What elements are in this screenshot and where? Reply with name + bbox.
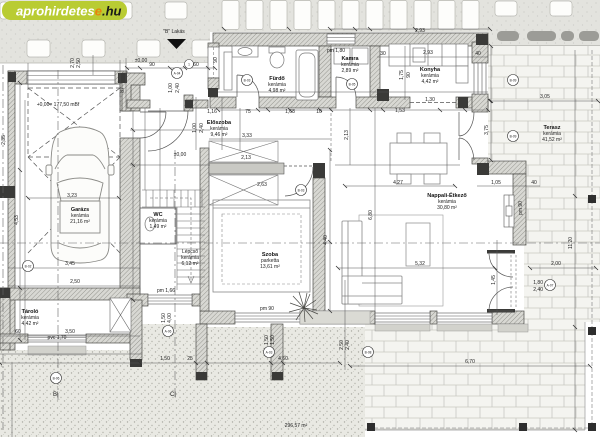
svg-text:1,00: 1,00 (192, 123, 198, 133)
svg-text:25: 25 (187, 356, 193, 362)
svg-text:1,68: 1,68 (285, 109, 295, 115)
svg-text:2,40: 2,40 (175, 83, 181, 93)
svg-text:2,40: 2,40 (533, 287, 543, 293)
hall bottom wall left stub (127, 100, 150, 108)
garage top wall (8, 71, 127, 84)
svg-text:90: 90 (213, 57, 219, 63)
svg-text:2,63: 2,63 (257, 182, 267, 188)
taroló shaft (110, 298, 131, 332)
svg-text:6,80: 6,80 (368, 210, 374, 220)
WC fixture (145, 217, 155, 231)
svg-text:B-03: B-03 (244, 79, 251, 83)
right terrace bricks (488, 46, 600, 164)
svg-text:A-03: A-03 (266, 351, 273, 355)
garage left wall (8, 71, 15, 350)
WC room (140, 208, 176, 244)
interior horizontal wall (210, 97, 236, 108)
bottom terrace bricks (365, 322, 585, 430)
svg-text:3,50: 3,50 (65, 329, 75, 335)
svg-text:4,00: 4,00 (167, 313, 173, 323)
stairs lower flight (150, 198, 205, 290)
sofa (359, 215, 443, 306)
svg-text:B-09: B-09 (510, 79, 517, 83)
svg-text:4,98 m²: 4,98 m² (269, 88, 286, 94)
room labels (21, 56, 562, 327)
svg-text:1,16: 1,16 (207, 109, 217, 115)
svg-text:2,40: 2,40 (345, 340, 351, 350)
svg-text:pm 90: pm 90 (260, 306, 274, 312)
svg-text:1,00: 1,00 (168, 83, 174, 93)
windows (28, 34, 514, 342)
vestibule wardrobe (224, 52, 232, 90)
svg-text:4,27: 4,27 (393, 180, 403, 186)
szoba left wall (200, 148, 209, 311)
car in garage (46, 127, 114, 263)
top wall (213, 33, 488, 46)
svg-text:40: 40 (531, 180, 537, 186)
svg-text:13,61 m²: 13,61 m² (260, 264, 280, 270)
garage right wall lower (120, 138, 140, 290)
ground stipple bottom-left (0, 306, 365, 437)
svg-text:1,50: 1,50 (160, 356, 170, 362)
svg-text:4,42 m²: 4,42 m² (422, 79, 439, 85)
joist/beam grid szoba top (209, 141, 284, 205)
svg-text:pm 1,66: pm 1,66 (157, 288, 175, 294)
left porch stub (130, 300, 142, 360)
svg-text:6,12 m²: 6,12 m² (182, 261, 199, 267)
svg-text:60: 60 (15, 329, 21, 335)
svg-text:2,93: 2,93 (415, 28, 425, 34)
svg-text:A-06: A-06 (165, 330, 172, 334)
circle markers (23, 60, 556, 384)
window sill slabs outside (375, 324, 430, 331)
svg-text:±0,00: ±0,00 (135, 58, 148, 64)
svg-text:3,33: 3,33 (242, 133, 252, 139)
svg-text:90: 90 (406, 72, 412, 78)
dining table (390, 133, 447, 184)
svg-text:1,30: 1,30 (425, 97, 435, 103)
garage door strip in top wall (27, 71, 115, 84)
svg-text:aprohirdetese.hu: aprohirdetese.hu (16, 4, 122, 19)
svg-text:1,75: 1,75 (399, 70, 405, 80)
svg-text:B-03: B-03 (298, 189, 305, 193)
bed in szoba (213, 200, 310, 292)
svg-text:B-06: B-06 (53, 377, 60, 381)
svg-text:30: 30 (380, 51, 386, 57)
svg-text:3,75: 3,75 (484, 125, 490, 135)
svg-text:90: 90 (149, 62, 155, 68)
svg-text:A-07: A-07 (547, 284, 554, 288)
svg-text:3,23: 3,23 (67, 193, 77, 199)
svg-text:2,35: 2,35 (1, 135, 7, 145)
svg-text:B-05: B-05 (349, 83, 356, 87)
svg-text:40: 40 (475, 51, 481, 57)
WALLS (0, 33, 526, 380)
svg-text:2,13: 2,13 (344, 130, 350, 140)
svg-text:60: 60 (193, 62, 199, 68)
kamra shelves (334, 48, 350, 64)
svg-text:2,50: 2,50 (70, 279, 80, 285)
szoba/living wall (313, 178, 325, 311)
svg-text:2,93: 2,93 (423, 50, 433, 56)
svg-text:±0,00: ±0,00 (174, 152, 187, 158)
svg-text:10: 10 (316, 109, 322, 115)
porch column stubs (196, 324, 207, 380)
svg-text:B-09: B-09 (510, 135, 517, 139)
hedge ovals top right (497, 31, 599, 41)
doors (arcs) (140, 75, 516, 311)
svg-text:2,50: 2,50 (76, 58, 82, 68)
svg-text:1,50: 1,50 (270, 335, 276, 345)
garage dashed rect + X (28, 88, 120, 253)
svg-text:1,49 m²: 1,49 m² (150, 224, 167, 230)
garage right wall upper (120, 83, 140, 111)
svg-text:1,05: 1,05 (491, 180, 501, 186)
svg-text:4,40: 4,40 (323, 235, 329, 245)
wall kamra/konyha (370, 46, 380, 97)
svg-text:pm 1,80: pm 1,80 (327, 48, 345, 54)
building white base (210, 32, 488, 324)
bottom wall main (200, 311, 235, 324)
svg-text:75: 75 (245, 109, 251, 115)
stairs upper flight (142, 190, 205, 207)
svg-text:B|: B| (53, 392, 59, 398)
small vertical dim labels (70, 58, 524, 350)
svg-text:4,60: 4,60 (278, 356, 288, 362)
taroló bottom wall (0, 334, 28, 343)
svg-text:1: 1 (188, 63, 190, 67)
svg-text:21,16 m²: 21,16 m² (70, 219, 90, 225)
svg-text:pm 90: pm 90 (518, 201, 524, 215)
bottom wall hall section (127, 294, 148, 306)
svg-text:B-08: B-08 (365, 351, 372, 355)
logo (2, 1, 127, 20)
svg-text:C|: C| (170, 392, 176, 398)
svg-text:11,20: 11,20 (568, 237, 574, 249)
svg-text:296,57 m²: 296,57 m² (285, 423, 308, 429)
svg-text:1,53: 1,53 (395, 108, 405, 114)
taroló left wall (0, 288, 10, 350)
vestibule wall + front door (208, 43, 219, 48)
porch right pillar (184, 95, 193, 111)
svg-text:1,80: 1,80 (533, 280, 543, 286)
plant (289, 292, 318, 322)
svg-text:6,70: 6,70 (465, 359, 475, 365)
top pavement strip (0, 0, 490, 63)
svg-text:41,52 m²: 41,52 m² (542, 137, 562, 143)
svg-text:1,45: 1,45 (491, 275, 497, 285)
bath fixtures (232, 46, 318, 100)
garage-taroló divider (0, 288, 140, 300)
svg-text:4,42 m²: 4,42 m² (22, 321, 39, 327)
terrace posts (367, 195, 596, 431)
svg-text:A-04: A-04 (174, 72, 181, 76)
svg-text:pvc 1,70: pvc 1,70 (48, 335, 67, 341)
plank pavers above house (222, 1, 479, 30)
svg-text:2,13: 2,13 (241, 155, 251, 161)
svg-text:2,40: 2,40 (199, 123, 205, 133)
svg-text:"B" Lakás: "B" Lakás (163, 29, 185, 35)
svg-text:9,46 m²: 9,46 m² (211, 132, 228, 138)
wall bath/kamra (319, 46, 331, 97)
annex step wall (488, 161, 526, 174)
svg-text:87: 87 (120, 87, 126, 93)
coffee table (406, 223, 430, 266)
svg-text:5,32: 5,32 (415, 261, 425, 267)
annex right wall (513, 174, 526, 245)
svg-text:3,05: 3,05 (540, 94, 550, 100)
pavement boundary (0, 62, 490, 64)
svg-text:30,80 m²: 30,80 m² (437, 205, 457, 211)
kitchen counter (389, 44, 468, 83)
svg-text:2,89 m²: 2,89 m² (342, 68, 359, 74)
dark corner blocks (0, 34, 515, 380)
svg-text:2,00: 2,00 (551, 261, 561, 267)
paver row 2 (27, 40, 215, 57)
svg-text:4,53: 4,53 (14, 215, 20, 225)
right wall segments (472, 42, 488, 63)
svg-text:B-02: B-02 (25, 265, 32, 269)
svg-text:Nappali-Étkező: Nappali-Étkező (427, 191, 467, 199)
svg-text:3,45: 3,45 (65, 261, 75, 267)
porch left pillar (122, 73, 145, 111)
paver row 1 (0, 1, 572, 19)
